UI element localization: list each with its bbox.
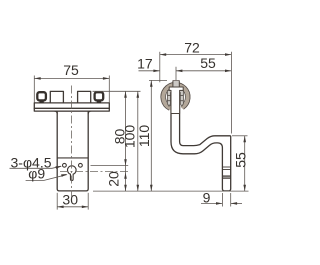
svg-text:72: 72 [184, 39, 200, 55]
svg-text:φ9: φ9 [28, 165, 45, 181]
svg-text:55: 55 [200, 55, 216, 71]
svg-text:55: 55 [232, 152, 248, 168]
svg-text:17: 17 [137, 55, 153, 71]
svg-text:30: 30 [62, 192, 78, 208]
svg-text:75: 75 [63, 62, 79, 78]
svg-text:20: 20 [105, 171, 121, 187]
svg-text:9: 9 [203, 190, 211, 206]
svg-text:110: 110 [136, 125, 152, 148]
